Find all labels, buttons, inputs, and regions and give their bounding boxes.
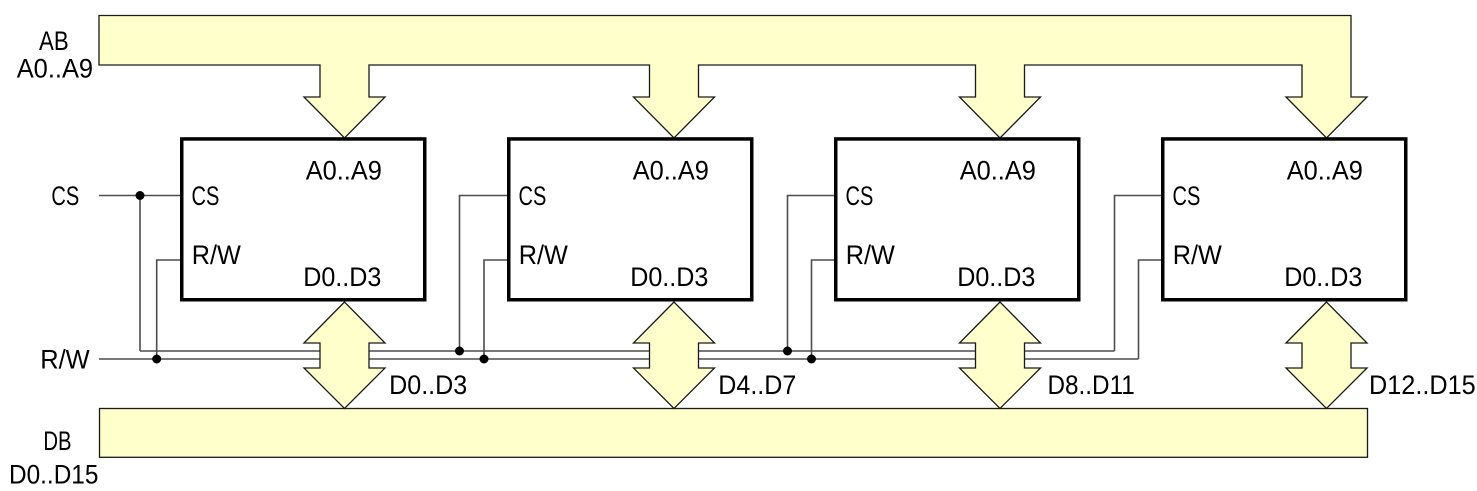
junction R/W at U1 [152, 355, 161, 364]
wire R/W riser to U4 [1139, 260, 1162, 359]
junction R/W at U3 [807, 355, 816, 364]
junction R/W at U2 [480, 355, 489, 364]
wire CS riser to U2 [460, 196, 508, 352]
wire R/W distribution line [99, 358, 1139, 360]
svg-text:A0..A9: A0..A9 [17, 54, 93, 84]
junction CS at U1 [136, 191, 145, 200]
svg-text:R/W: R/W [40, 344, 90, 374]
junction CS at U2 [455, 347, 464, 356]
junction CS at U3 [783, 347, 792, 356]
svg-text:A0..A9: A0..A9 [960, 156, 1036, 186]
svg-text:D0..D3: D0..D3 [957, 262, 1035, 292]
svg-text:D8..D11: D8..D11 [1048, 370, 1135, 400]
wire CS riser to U4 [1115, 196, 1162, 352]
svg-text:CS: CS [51, 181, 79, 211]
svg-text:R/W: R/W [519, 240, 569, 270]
svg-text:D12..D15: D12..D15 [1369, 370, 1476, 400]
memory chip U4 [1163, 139, 1406, 300]
svg-text:CS: CS [846, 181, 874, 211]
wire CS stub from label to U1 CS pin [99, 195, 180, 197]
svg-text:R/W: R/W [1173, 240, 1223, 270]
memory chip U2 [509, 139, 752, 300]
bidirectional data arrow U2 to DB [634, 302, 715, 409]
bidirectional data arrow U1 to DB [304, 302, 385, 409]
svg-text:D0..D3: D0..D3 [630, 262, 708, 292]
svg-text:AB: AB [39, 26, 69, 56]
wire CS riser to U3 [788, 196, 835, 352]
memory chip U3 [836, 139, 1079, 300]
svg-text:D4..D7: D4..D7 [718, 370, 796, 400]
address bus AB bar with four down arrows [99, 16, 1367, 139]
bidirectional data arrow U3 to DB [960, 302, 1041, 409]
svg-text:A0..A9: A0..A9 [633, 156, 709, 186]
memory chip U1 [182, 139, 425, 300]
bidirectional data arrow U4 to DB [1286, 302, 1367, 409]
svg-text:D0..D3: D0..D3 [389, 370, 467, 400]
svg-text:D0..D3: D0..D3 [303, 262, 381, 292]
svg-text:D0..D3: D0..D3 [1284, 262, 1362, 292]
wire R/W riser to U2 [484, 260, 507, 359]
wire CS vertical drop from junction [139, 196, 141, 352]
svg-text:R/W: R/W [192, 240, 242, 270]
svg-text:CS: CS [192, 181, 220, 211]
wire CS distribution line [140, 350, 1115, 352]
data bus DB bar [100, 409, 1368, 458]
svg-text:DB: DB [43, 426, 71, 456]
svg-text:R/W: R/W [846, 240, 896, 270]
svg-text:A0..A9: A0..A9 [306, 156, 382, 186]
wire R/W riser to U3 [812, 260, 835, 359]
svg-text:CS: CS [1173, 181, 1201, 211]
wire R/W riser to U1 [157, 260, 180, 359]
svg-text:CS: CS [519, 181, 547, 211]
svg-text:A0..A9: A0..A9 [1287, 156, 1363, 186]
svg-text:D0..D15: D0..D15 [9, 460, 98, 490]
